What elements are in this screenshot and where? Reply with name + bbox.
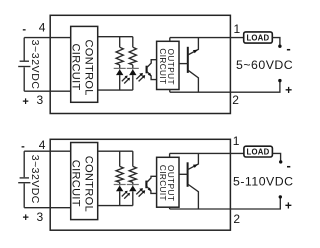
svg-text:1: 1 xyxy=(233,134,240,148)
output circuit box U4 xyxy=(157,157,179,207)
wire terminal 3 input (bottom) xyxy=(24,207,70,209)
svg-text:+: + xyxy=(23,212,29,224)
svg-text:CONTROL: CONTROL xyxy=(83,156,95,212)
svg-text:LOAD: LOAD xyxy=(247,147,270,156)
wire LED bottom rail xyxy=(98,89,133,91)
resistor R1 xyxy=(116,37,123,65)
LED D1 xyxy=(114,65,126,90)
LOAD box (bottom) xyxy=(244,146,273,157)
svg-text:CIRCUIT: CIRCUIT xyxy=(70,44,82,91)
wire terminal 1 rail xyxy=(170,37,244,39)
minus terminal dot (bottom) xyxy=(279,160,282,163)
output circuit box U2 xyxy=(157,41,179,89)
svg-text:4: 4 xyxy=(39,21,46,35)
wire terminal 1 rail (bottom) xyxy=(170,152,244,154)
svg-text:-: - xyxy=(21,140,25,152)
plus terminal dot xyxy=(278,79,281,82)
svg-text:+: + xyxy=(285,83,292,97)
svg-text:CIRCUIT: CIRCUIT xyxy=(158,165,167,201)
svg-text:LOAD: LOAD xyxy=(246,33,269,42)
wire jog rail2 to output box bottom xyxy=(169,90,171,93)
resistor R3 xyxy=(116,151,123,182)
wire jog rail2 to output box bottom (bottom) xyxy=(169,207,171,209)
capacitor C1 xyxy=(18,38,30,92)
wire LED top rail (bottom) xyxy=(98,150,133,152)
control circuit box U1 xyxy=(71,26,98,102)
phototransistor Q3 xyxy=(146,176,156,193)
wire LOAD to minus terminal xyxy=(272,38,280,45)
plus terminal dot (bottom) xyxy=(279,195,282,198)
LOAD box xyxy=(244,32,273,43)
relay outer case (top diagram) xyxy=(50,15,230,113)
wire terminal 4 input (bottom) xyxy=(24,150,70,152)
wire LED top rail xyxy=(98,36,133,38)
LED D4 xyxy=(127,182,139,205)
wire jog rail1 to output box top (bottom) xyxy=(169,153,171,157)
svg-text:CONTROL: CONTROL xyxy=(83,40,95,96)
svg-text:5-110VDC: 5-110VDC xyxy=(233,175,294,189)
control circuit box U3 xyxy=(71,143,98,220)
output transistor Q4 xyxy=(179,153,198,209)
LED D4 light arrows xyxy=(136,188,145,197)
LED D3 xyxy=(114,182,126,205)
svg-text:5~60VDC: 5~60VDC xyxy=(236,58,293,72)
wire jog rail1 to output box top xyxy=(169,38,171,42)
phototransistor Q1 xyxy=(147,60,157,80)
svg-text:CIRCUIT: CIRCUIT xyxy=(70,160,82,207)
wire LOAD to minus terminal (bottom) xyxy=(272,153,280,160)
output transistor Q2 xyxy=(179,38,198,93)
minus terminal dot xyxy=(278,45,281,48)
LED D2 light arrows xyxy=(136,73,145,82)
LED D3 light arrows xyxy=(122,191,130,199)
resistor R2 xyxy=(129,37,136,65)
wire terminal 2 rail (bottom) xyxy=(170,198,281,209)
svg-text:3~32VDC: 3~32VDC xyxy=(29,155,41,204)
wire LED bottom rail (bottom) xyxy=(98,205,133,207)
LED D1 light arrows xyxy=(122,76,130,84)
wire terminal 2 rail xyxy=(170,82,280,92)
svg-text:4: 4 xyxy=(39,138,46,152)
svg-text:3~32VDC: 3~32VDC xyxy=(29,40,41,90)
svg-text:2: 2 xyxy=(233,212,240,226)
capacitor C2 xyxy=(18,151,30,208)
LED D2 xyxy=(127,65,139,90)
svg-text:1: 1 xyxy=(234,22,241,36)
svg-text:2: 2 xyxy=(232,93,239,107)
svg-text:+: + xyxy=(22,96,28,108)
wire terminal 4 input xyxy=(24,37,70,39)
svg-text:3: 3 xyxy=(37,210,44,224)
svg-text:+: + xyxy=(285,199,292,213)
wire terminal 3 input xyxy=(24,90,70,92)
svg-text:-: - xyxy=(286,41,290,56)
resistor R4 xyxy=(129,151,136,182)
relay outer case (bottom diagram) xyxy=(50,139,230,230)
svg-text:CIRCUIT: CIRCUIT xyxy=(158,48,167,84)
svg-text:3: 3 xyxy=(37,93,44,107)
svg-text:-: - xyxy=(22,24,26,36)
svg-text:-: - xyxy=(287,158,291,173)
